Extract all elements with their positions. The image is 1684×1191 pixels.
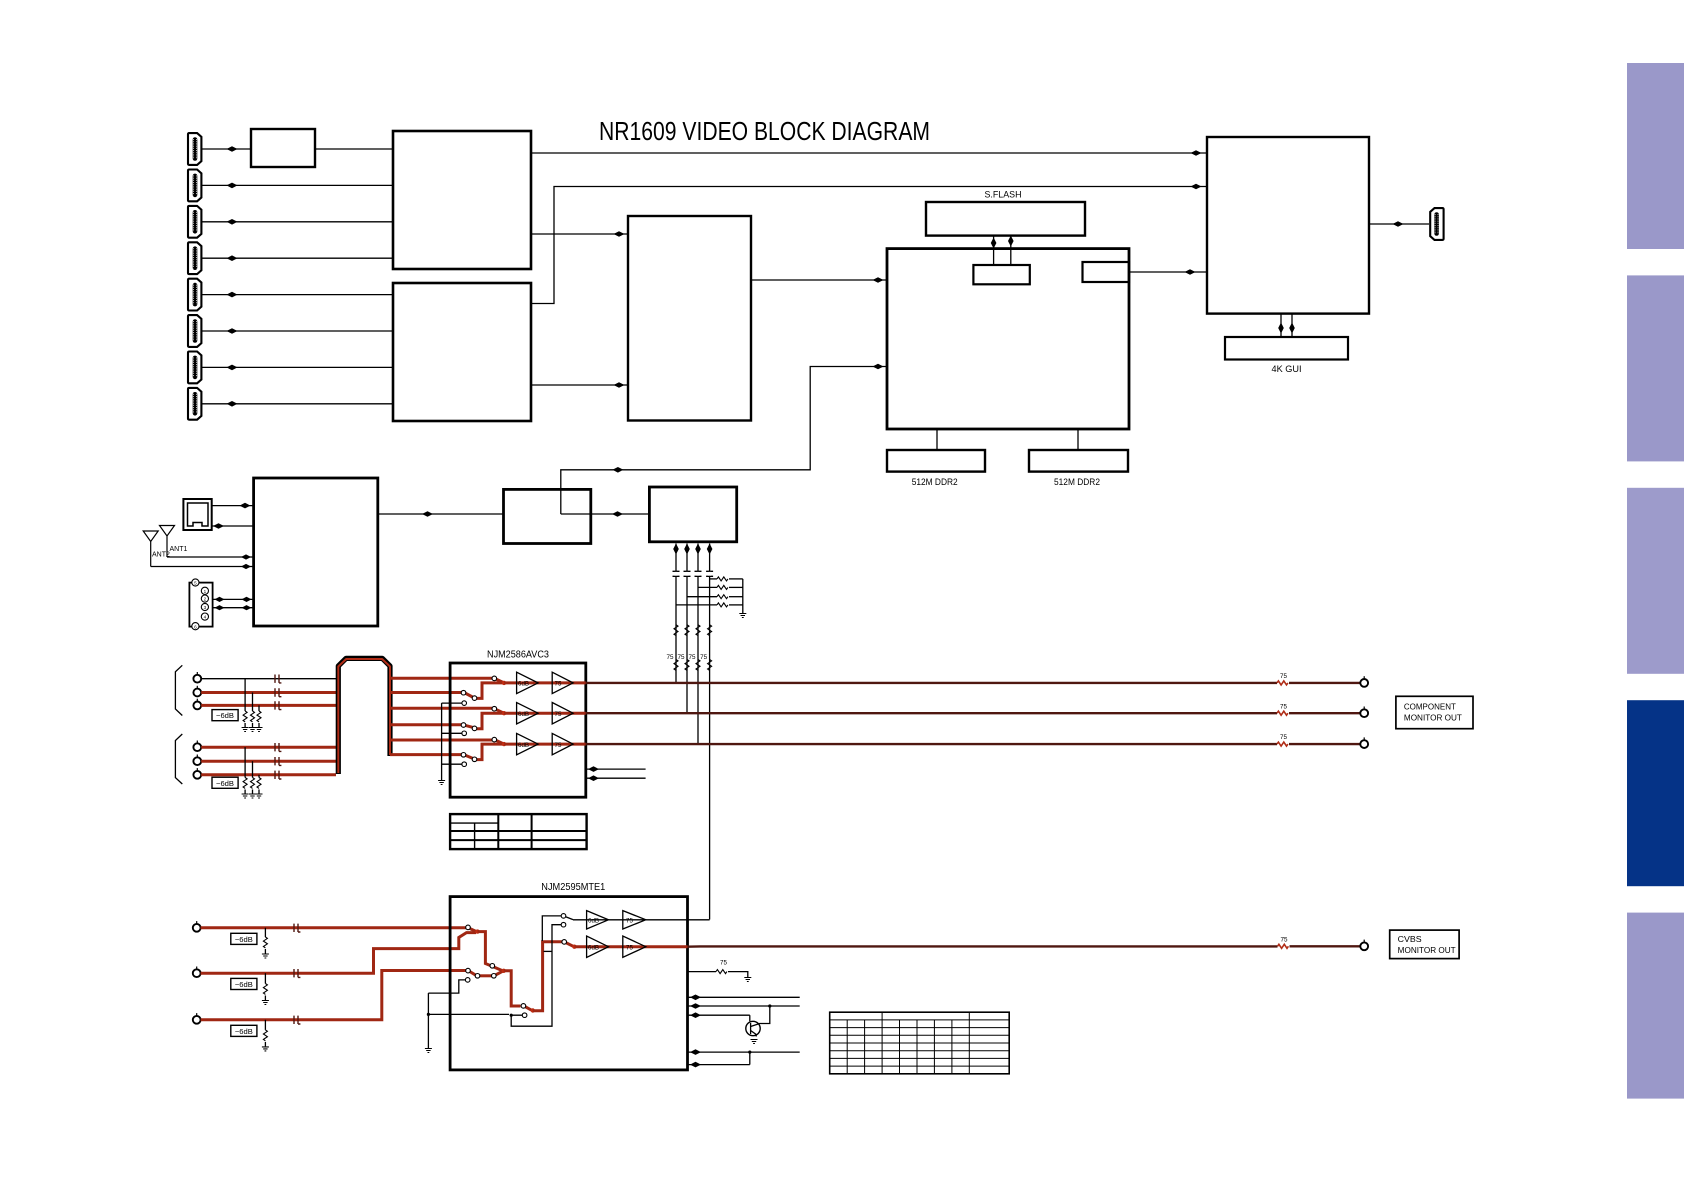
CVBS RC tap 2 — [262, 973, 269, 1004]
component input jack group1 Pr — [193, 699, 201, 710]
4-pin control connector — [189, 579, 212, 630]
wire group1 Pb to bundle — [201, 691, 336, 694]
wire U1 to HDMI transmitter (top) — [531, 150, 1207, 156]
sidebar tab 4 — [1627, 700, 1684, 886]
input RC tap 1 (group1 Y) — [242, 679, 249, 732]
component input jack group1 Y — [193, 672, 201, 683]
wire tuner to demodulator U4 — [378, 511, 504, 517]
svg-text:S.FLASH: S.FLASH — [985, 190, 1022, 201]
mute contact switch1 to ground bus — [428, 978, 470, 993]
HDMI TX sub-box in SoC — [1083, 262, 1130, 282]
coupling capacitor C2 — [684, 571, 691, 576]
component input jack group2 Y — [193, 741, 201, 752]
HDMI input connector J5 — [188, 279, 201, 311]
monitor amp throw 1 link — [542, 914, 566, 941]
sidebar tab 2 — [1627, 275, 1684, 461]
op-amp A7 (monitor 6dB) — [587, 911, 609, 929]
DAC output line 2 from U5 — [684, 544, 690, 714]
wire J8 to U2 — [202, 401, 393, 407]
CVBS path switch2 to switch3 — [504, 971, 521, 1006]
CVBS input jack 3 — [193, 1013, 201, 1024]
video switch NJM2595MTE1 box — [450, 897, 687, 1070]
svg-text:NJM2595MTE1: NJM2595MTE1 — [541, 882, 605, 893]
wire U4 node up to SoC — [561, 364, 887, 514]
-6dB pad box group1 — [212, 710, 238, 721]
video amp NJM2586AVC3 box — [450, 663, 586, 797]
wire SoC to 4K GUI left — [1278, 314, 1284, 337]
wire group2 Pr to bundle — [201, 773, 336, 776]
op-amp A5 (Pr 6dB) — [517, 733, 539, 754]
monitor amp path — [573, 919, 710, 921]
svg-text:ANT2: ANT2 — [152, 552, 170, 559]
DDR memory box 2 — [1029, 450, 1128, 472]
wire group1 Pr to bundle — [201, 704, 336, 707]
svg-text:75: 75 — [1280, 936, 1288, 943]
wire U4 node to U5 — [561, 511, 650, 517]
Y output wire — [586, 681, 1361, 685]
component input jack group2 Pr — [193, 768, 201, 779]
wire transmitter to HDMI monitor out — [1369, 221, 1429, 227]
wire ANT2 to tuner — [151, 564, 254, 569]
control input wire 4 — [688, 1049, 800, 1055]
CVBS path switch1 to switch2 — [478, 932, 503, 971]
Pb output jack — [1360, 707, 1368, 718]
Pr output wire — [586, 742, 1361, 746]
CVBS RC tap 1 — [262, 928, 269, 958]
wire bundle to ch3 lower — [390, 753, 462, 756]
cable bundle crossover — [338, 658, 390, 774]
termination resistor R9 line1 — [674, 660, 678, 671]
spec table 1 — [450, 814, 586, 849]
spec table 2 — [830, 1012, 1010, 1074]
CVBS wire 2 step up to switch1 — [201, 933, 476, 974]
termination resistor R12 line4 — [708, 660, 712, 671]
ferrite bead FB3 — [275, 701, 281, 709]
wire SoC to DDR1 — [936, 429, 938, 450]
ferrite bead FB7 — [294, 924, 300, 932]
demodulator box U4 — [504, 489, 591, 543]
op-amp A1 (Y 6dB) — [517, 672, 539, 693]
CVBS select switch 2 — [466, 964, 506, 979]
svg-text:COMPONENT: COMPONENT — [1404, 703, 1456, 712]
control input wire 2 — [688, 1003, 800, 1009]
wire optical to tuner — [212, 503, 254, 509]
input RC tap 4 (group2 Y) — [242, 747, 249, 798]
DAC output line 4 from U5 — [707, 544, 713, 920]
svg-text:75: 75 — [700, 654, 708, 661]
ferrite bead FB4 — [275, 743, 281, 751]
Pb output wire — [586, 711, 1361, 715]
wire bundle to ch1 lower — [390, 691, 462, 694]
HDMI input connector J7 — [188, 352, 201, 384]
svg-text:−6dB: −6dB — [235, 935, 253, 944]
svg-text:6: 6 — [194, 624, 197, 629]
svg-text:MONITOR OUT: MONITOR OUT — [1404, 714, 1462, 723]
CVBS input jack 2 — [193, 967, 201, 978]
input RC tap 5 (group2 Pb) — [249, 761, 256, 798]
optical input connector — [183, 499, 211, 530]
wire J1 to repeater box — [202, 146, 251, 152]
component input jack group1 Pb — [193, 686, 201, 697]
termination resistor R10 line2 — [685, 660, 689, 671]
COMPONENT MONITOR OUT label box — [1396, 696, 1473, 728]
HDMI input connector J8 — [188, 388, 201, 420]
flash controller sub-box — [973, 265, 1029, 284]
svg-text:75: 75 — [626, 917, 633, 924]
wire U3 to video SoC — [751, 277, 887, 283]
input RC tap 2 (group1 Pb) — [249, 693, 256, 732]
sidebar tab 1 — [1627, 63, 1684, 249]
wire tuner to optical (return) — [212, 523, 254, 529]
channel Pr switch and amps — [461, 737, 586, 761]
svg-text:6dB: 6dB — [518, 742, 529, 749]
network/tuner module box — [254, 478, 378, 626]
CVBS wire 1 to NJM2595 — [201, 926, 466, 929]
svg-text:NJM2586AVC3: NJM2586AVC3 — [487, 650, 549, 661]
HDMI switch U1 — [393, 131, 531, 269]
ferrite bead FB2 — [275, 688, 281, 696]
sidebar tab 3 — [1627, 488, 1684, 674]
wire J7 to U2 — [202, 365, 393, 371]
svg-text:75: 75 — [1280, 703, 1288, 710]
control input wire 3 — [688, 1012, 750, 1018]
wire bundle to ch1 upper — [390, 677, 492, 680]
HDMI input connector J3 — [188, 206, 201, 238]
HDMI switch U2 — [393, 283, 531, 421]
svg-text:CVBS: CVBS — [1398, 935, 1422, 944]
repeater box — [251, 129, 315, 167]
op-amp A2 (Y 75) — [552, 672, 573, 693]
-6dB pad CVBS 1 — [231, 933, 257, 944]
termination 75 resistor to ground — [688, 960, 752, 982]
op-amp A3 (Pb 6dB) — [517, 703, 539, 724]
CVBS MONITOR OUT label box — [1390, 930, 1459, 959]
ground bus NJM2595 — [425, 993, 432, 1052]
pull resistor R3 (line2) — [687, 595, 743, 599]
-6dB pad CVBS 3 — [231, 1025, 257, 1036]
wire bundle to ch2 upper — [390, 707, 492, 710]
wire group2 Y to bundle — [201, 746, 336, 749]
wire connector data 2 (bidirectional) — [213, 605, 254, 610]
wire J3 to U1 — [202, 219, 393, 225]
ground bus of pull resistors — [739, 579, 746, 618]
CVBS input jack 1 — [193, 921, 201, 932]
svg-text:2: 2 — [204, 597, 207, 602]
control link wire 4 to 5 — [749, 1052, 751, 1065]
svg-text:75: 75 — [678, 654, 686, 661]
ground bus tap — [427, 1013, 509, 1016]
wire J4 to U1 — [202, 255, 393, 261]
coupling capacitor C1 — [673, 571, 680, 576]
svg-text:6dB: 6dB — [518, 681, 529, 688]
svg-text:6dB: 6dB — [588, 917, 599, 924]
-6dB pad box group2 — [212, 777, 238, 788]
svg-text:75: 75 — [689, 654, 697, 661]
amp control input 2 — [586, 775, 646, 781]
svg-text:−6dB: −6dB — [235, 980, 253, 989]
termination resistor R11 line3 — [696, 660, 700, 671]
series resistor R6 line2 — [685, 625, 689, 636]
svg-text:5: 5 — [194, 581, 197, 586]
wire flash write (down arrow) — [991, 236, 997, 265]
wire U2 up to HDMI transmitter — [531, 184, 1207, 304]
svg-text:NR1609 VIDEO BLOCK DIAGRAM: NR1609 VIDEO BLOCK DIAGRAM — [599, 118, 930, 146]
coupling capacitor C3 — [695, 571, 702, 576]
Y output jack — [1360, 676, 1368, 687]
monitor amp throw 2 contact — [561, 922, 566, 927]
antenna ANT2 — [143, 531, 170, 567]
CVBS wire 3 step up to switch2 — [201, 971, 466, 1020]
pull resistor R4 (line1) — [676, 603, 743, 607]
series resistor R5 line1 — [674, 625, 678, 636]
video encoder box U5 — [649, 487, 736, 542]
CVBS select switch 1 — [466, 925, 480, 934]
op-amp A10 (CVBS 75) — [623, 936, 646, 957]
channel Pb switch and amps — [461, 706, 586, 730]
svg-text:−6dB: −6dB — [216, 779, 234, 788]
DDR memory box 1 — [887, 450, 985, 472]
wire J5 to HDMI switch U2 — [202, 292, 393, 298]
4K GUI memory box — [1225, 337, 1348, 360]
wire ANT1 to tuner — [167, 554, 254, 559]
sidebar tab 5 — [1627, 913, 1684, 1099]
ferrite bead FB1 — [275, 675, 281, 683]
HDMI input connector J2 — [188, 170, 201, 202]
DAC output line 3 from U5 — [695, 544, 701, 745]
wire U2 to U3 — [531, 382, 628, 388]
HDMI input connector J1 — [188, 133, 201, 165]
ch Pr mute contact to ground — [442, 762, 467, 767]
wire bundle to ch3 upper — [390, 739, 492, 742]
ferrite bead FB6 — [275, 771, 281, 779]
input group bracket 2 — [175, 734, 182, 784]
ch Pb mute contact to ground — [442, 731, 467, 736]
component input jack group2 Pb — [193, 755, 201, 766]
svg-text:6dB: 6dB — [588, 944, 599, 951]
-6dB pad CVBS 2 — [231, 978, 257, 989]
CVBS RC tap 3 — [262, 1020, 269, 1051]
wire bundle to ch2 lower — [390, 723, 462, 726]
wire repeater box to HDMI switch U1 — [315, 148, 393, 150]
CVBS path switch3 up to switch4 — [533, 942, 562, 1011]
svg-text:75: 75 — [555, 711, 562, 718]
svg-text:75: 75 — [1280, 673, 1288, 680]
svg-text:−6dB: −6dB — [216, 711, 234, 720]
wire flash read (up arrow) — [1008, 236, 1014, 266]
svg-text:75: 75 — [555, 742, 562, 749]
wire SoC to DDR2 — [1077, 429, 1079, 450]
input RC tap 3 (group1 Pr) — [256, 705, 263, 731]
wire J6 to U2 — [202, 328, 393, 334]
DAC output line 1 from U5 — [673, 544, 679, 684]
mute contact switch3 link — [510, 925, 562, 1026]
op-amp A6 (Pr 75) — [552, 733, 573, 754]
svg-text:512M DDR2: 512M DDR2 — [1054, 477, 1100, 488]
svg-text:75: 75 — [626, 944, 633, 951]
serial flash box — [926, 202, 1085, 236]
Pr output jack — [1360, 737, 1368, 748]
svg-text:75: 75 — [720, 960, 728, 967]
svg-text:6dB: 6dB — [518, 711, 529, 718]
input RC tap 6 (group2 Pr) — [256, 775, 263, 798]
transistor Q1 — [746, 1004, 772, 1043]
channel Y switch and amps — [461, 676, 586, 700]
wire SoC to 4K GUI right — [1289, 314, 1295, 337]
series resistor R7 line3 — [696, 625, 700, 636]
svg-text:4K GUI: 4K GUI — [1272, 364, 1302, 375]
CVBS select switch 4 — [562, 940, 577, 949]
series resistor R8 line4 — [708, 625, 712, 636]
monitor amp blade — [565, 917, 573, 920]
wire group1 Y to bundle — [201, 678, 336, 680]
HDMI receiver U3 — [628, 216, 751, 421]
amp control input 1 — [586, 766, 646, 772]
HDMI input connector J6 — [188, 315, 201, 347]
ch Y mute contact to ground — [442, 701, 467, 706]
CVBS select switch 3 — [521, 1004, 535, 1013]
control input wire 5 — [688, 1062, 750, 1068]
mute ground bus — [438, 703, 445, 784]
antenna ANT1 — [160, 526, 188, 558]
video SoC box — [887, 249, 1129, 429]
CVBS main path through amps — [574, 945, 687, 948]
ferrite bead FB5 — [275, 757, 281, 765]
op-amp A4 (Pb 75) — [552, 703, 573, 724]
svg-text:75: 75 — [667, 654, 675, 661]
op-amp A8 (monitor 75) — [623, 911, 646, 929]
tap red trunk to monitor amp bus — [544, 950, 553, 952]
control input wire 1 — [688, 995, 800, 1001]
ferrite bead FB9 — [294, 1016, 300, 1024]
HDMI monitor out connector — [1430, 208, 1443, 240]
pull resistor R1 (line4) — [710, 577, 743, 581]
op-amp A9 (CVBS 6dB) — [587, 936, 609, 957]
svg-text:1: 1 — [204, 589, 207, 594]
HDMI input connector J4 — [188, 242, 201, 274]
CVBS output jack — [1360, 940, 1368, 951]
pull resistor R2 (line3) — [698, 585, 743, 589]
wire group2 Pb to bundle — [201, 760, 336, 763]
svg-text:4: 4 — [204, 615, 207, 620]
wire SoC HDMI TX to transmitter box — [1129, 269, 1207, 275]
svg-text:512M DDR2: 512M DDR2 — [912, 477, 958, 488]
svg-text:ANT1: ANT1 — [170, 546, 188, 553]
ferrite bead FB8 — [294, 969, 300, 977]
svg-text:3: 3 — [204, 605, 207, 610]
wire connector data 1 (bidirectional) — [213, 597, 254, 602]
svg-text:−6dB: −6dB — [235, 1027, 253, 1036]
svg-text:75: 75 — [1280, 734, 1288, 741]
svg-text:75: 75 — [555, 681, 562, 688]
HDMI output transmitter box — [1207, 137, 1369, 314]
svg-text:MONITOR OUT: MONITOR OUT — [1398, 946, 1456, 955]
wire U1 to U3 — [531, 231, 628, 237]
coupling capacitor C4 — [706, 571, 713, 576]
CVBS output wire — [688, 944, 1361, 948]
input group bracket 1 — [175, 665, 182, 715]
wire J2 to U1 — [202, 183, 393, 189]
